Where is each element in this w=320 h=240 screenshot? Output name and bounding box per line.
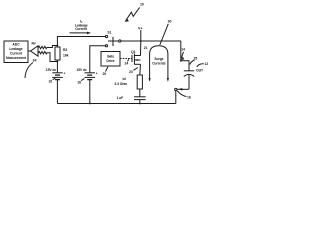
resistor R2 (55, 47, 60, 60)
svg-text:Leakage: Leakage (9, 47, 22, 51)
resistor Rv top (zigzag) (38, 46, 47, 48)
svg-text:R2: R2 (63, 48, 67, 52)
leader 10 (125, 3, 144, 22)
wire R2 top stub (56, 46, 58, 48)
svg-text:Gate: Gate (107, 55, 115, 59)
wire right drop (180, 41, 182, 61)
wire R2 bottom stub (56, 60, 58, 62)
svg-text:10: 10 (140, 3, 144, 7)
label V+ (138, 27, 142, 42)
leader 24 (125, 59, 129, 65)
leader 23 (129, 68, 138, 75)
svg-text:1 uF: 1 uF (117, 96, 124, 100)
wire jog to cap (181, 61, 189, 71)
gate drive box (101, 52, 120, 67)
wire cap to ground rail (139, 100, 141, 104)
svg-text:V+: V+ (138, 27, 142, 31)
resistor Rv bottom (zigzag) (38, 52, 47, 54)
wire bottom sense (47, 53, 58, 62)
node bottom cap (139, 103, 141, 105)
svg-text:32: 32 (49, 80, 53, 84)
arrow IL direction (70, 32, 92, 35)
svg-text:Rv: Rv (32, 41, 36, 45)
surge currents symbol (149, 46, 170, 82)
node R2 bottom (57, 61, 59, 63)
wire gate dashed (120, 58, 132, 60)
wire ADC to amp (28, 50, 31, 52)
svg-text:Surge: Surge (154, 57, 163, 61)
wire Q1 drain up (140, 41, 142, 56)
svg-text:3.3 Ohm: 3.3 Ohm (115, 82, 128, 86)
svg-text:Current: Current (10, 51, 23, 55)
svg-text:S1: S1 (107, 31, 111, 35)
node drain junction (140, 40, 142, 42)
leader 16 (177, 91, 191, 100)
svg-text:14: 14 (181, 47, 185, 51)
wire V+ rail (121, 40, 181, 42)
leader 25 (190, 57, 198, 65)
svg-text:15V dc: 15V dc (76, 68, 87, 72)
label IL (75, 19, 88, 31)
svg-text:Icl: Icl (123, 77, 127, 81)
node return corner (175, 88, 177, 90)
amp triangle (31, 46, 39, 56)
capacitor C output (184, 71, 194, 90)
svg-text:15V dc: 15V dc (46, 68, 57, 72)
leader 32 (49, 78, 56, 84)
svg-text:18: 18 (77, 80, 81, 84)
svg-text:Measurement: Measurement (6, 56, 27, 60)
battery 18 riser wire (90, 46, 106, 73)
svg-text:24: 24 (125, 62, 129, 66)
leader 12 (197, 62, 209, 67)
svg-text:20: 20 (103, 72, 107, 76)
battery 18 (15V dc) (76, 68, 97, 104)
svg-text:Currents: Currents (152, 62, 166, 66)
wire bottom rail (57, 103, 175, 105)
switch S1 (105, 31, 121, 47)
transistor Q1 (131, 50, 141, 65)
leader 18 (77, 79, 84, 85)
svg-text:OUT: OUT (196, 69, 204, 73)
ADC measurement box (4, 41, 28, 63)
svg-text:34: 34 (33, 59, 37, 63)
capacitor 1uF (117, 96, 146, 100)
node output junction (180, 60, 182, 62)
svg-text:Q1: Q1 (131, 50, 136, 54)
svg-text:10k: 10k (63, 54, 69, 58)
svg-text:+: + (64, 71, 66, 75)
wire left riser to top rail (57, 37, 105, 46)
resistor Icl 3.3 Ohm (115, 75, 143, 89)
svg-text:21: 21 (144, 46, 148, 50)
svg-text:ADC: ADC (12, 43, 20, 47)
leader 14 (181, 47, 185, 60)
wire to 1uF cap (139, 89, 141, 97)
node R2 top (57, 45, 59, 47)
svg-text:Drive: Drive (106, 59, 114, 63)
leader 34 (25, 59, 36, 79)
leader 30 (160, 20, 172, 45)
node battery bottom (89, 103, 91, 105)
svg-text:Current: Current (75, 27, 88, 31)
svg-text:12: 12 (205, 62, 209, 66)
battery 32 (15V dc) (46, 62, 66, 104)
wire top sense (47, 46, 58, 48)
wire right side down (175, 91, 177, 104)
wire Q1 source down (139, 64, 142, 75)
svg-text:30: 30 (168, 20, 172, 24)
svg-text:16: 16 (187, 96, 191, 100)
svg-text:23: 23 (129, 70, 133, 74)
svg-text:+: + (96, 71, 98, 75)
wire return with arrow (177, 88, 189, 91)
leader 20 (103, 67, 109, 76)
